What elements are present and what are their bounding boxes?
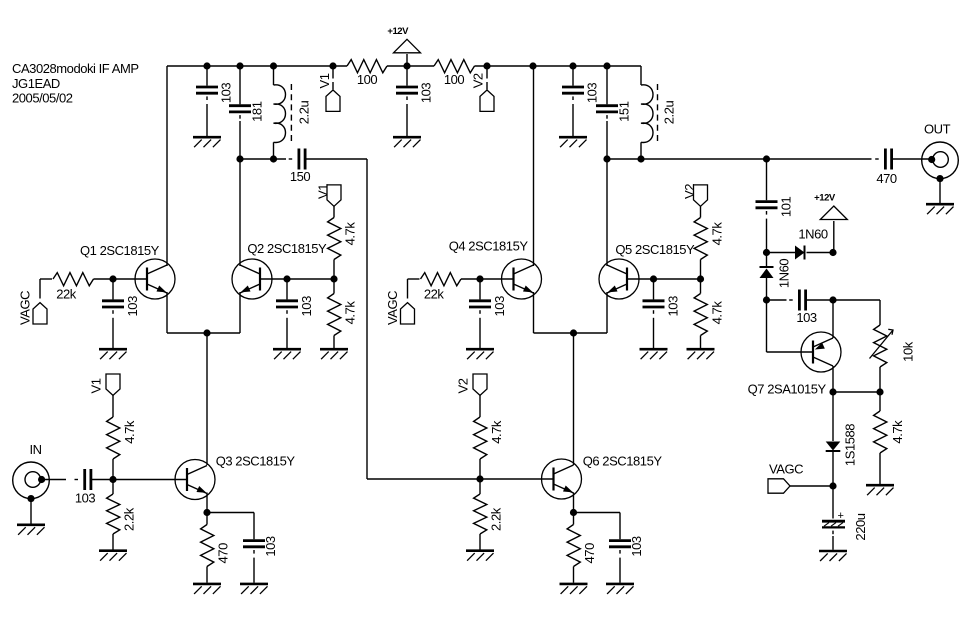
wire C13 top lead — [253, 513, 255, 540]
svg-text:Q2 2SC1815Y: Q2 2SC1815Y — [247, 241, 327, 256]
wire C10 top lead — [112, 279, 114, 299]
wire C20 to ground — [832, 536, 834, 550]
svg-text:4.7k: 4.7k — [709, 301, 724, 325]
wire Q5 emitter lead — [606, 292, 608, 333]
wire Q7 emitter net right — [833, 299, 880, 301]
wire +12V to rail — [406, 54, 408, 66]
node rail dot at C8 — [603, 62, 610, 69]
svg-text:470: 470 — [216, 543, 231, 564]
svg-text:V1: V1 — [88, 378, 103, 393]
wire Q7 base lead — [767, 351, 814, 353]
capacitor C1 103 rail bypass — [396, 83, 434, 104]
ground of C20 — [819, 551, 847, 561]
terminal VAGC tag 2 — [385, 291, 414, 325]
svg-text:IN: IN — [30, 442, 42, 457]
wire C1 top lead — [406, 66, 408, 86]
wire Q1 collector lead — [166, 66, 168, 266]
power +12V supply symbol 2 — [814, 193, 847, 220]
wire VAGC2 lead — [407, 291, 409, 299]
terminal V2 tag mid — [682, 184, 708, 207]
node D2 anode — [763, 296, 770, 303]
node VAGC out — [829, 482, 836, 489]
node rail dot +12V — [403, 62, 410, 69]
capacitor C14 103 Q4 base — [469, 296, 507, 317]
wire D2 cathode lead — [766, 253, 768, 267]
wire R12 to node — [479, 459, 481, 479]
diode D3 1S1588 — [826, 442, 841, 452]
wire C17 top lead — [619, 513, 621, 540]
capacitor C20 220u electrolytic — [822, 510, 868, 541]
wire Q2 base lead — [260, 278, 287, 280]
capacitor C19 103 detector — [789, 290, 817, 326]
wire Q4 base lead — [480, 278, 514, 280]
ground of C14 — [466, 349, 494, 359]
svg-text:4.7k: 4.7k — [489, 420, 504, 444]
svg-text:150: 150 — [290, 169, 311, 184]
wire coupling vertical — [366, 159, 368, 479]
svg-text:103: 103 — [263, 536, 278, 557]
wire Q7 collector lead — [832, 366, 834, 392]
ground of R13 — [466, 551, 494, 561]
svg-text:103: 103 — [585, 83, 600, 104]
wire to output cap — [767, 158, 872, 160]
wire Q3 emitter to C13 — [207, 512, 254, 514]
wire node to R7 — [112, 480, 114, 495]
svg-text:4.7k: 4.7k — [342, 222, 357, 246]
wire C11 to ground — [286, 318, 288, 348]
wire Q6 emitter lead — [573, 493, 575, 513]
title text block — [12, 61, 139, 106]
wire top rail segment 1 — [167, 65, 347, 67]
svg-text:2.2u: 2.2u — [296, 101, 311, 125]
node Q2 divider tap — [330, 275, 337, 282]
wire C5 to ground — [206, 104, 208, 136]
wire C18 top lead — [766, 159, 768, 200]
resistor R11 4.7k lower — [694, 294, 724, 336]
wire Q2 collector lead — [239, 159, 241, 266]
wire top rail segment 2 — [387, 65, 434, 67]
capacitor C17 103 Q6 bypass — [609, 536, 644, 557]
node Q4 base — [476, 275, 483, 282]
resistor R7 2.2k divider — [107, 494, 137, 534]
terminal V2 tag divider — [455, 374, 487, 395]
wire C6 bottom lead — [239, 121, 241, 159]
wire C14 to ground — [479, 318, 481, 348]
wire tap to R5 — [333, 279, 335, 294]
wire OUT bnc to ground — [939, 179, 941, 203]
wire V1 mid lead — [333, 206, 335, 217]
svg-text:4.7k: 4.7k — [342, 301, 357, 325]
wire IFT2 bottom link — [607, 158, 641, 160]
wire Q5 base lead — [627, 278, 654, 280]
wire C7 to ground — [572, 104, 574, 136]
ground of R15 — [866, 485, 894, 495]
svg-text:Q6 2SC1815Y: Q6 2SC1815Y — [583, 454, 663, 469]
svg-text:151: 151 — [617, 101, 632, 122]
ground of C15 — [640, 349, 668, 359]
capacitor C8 151 — [596, 101, 632, 122]
node Q7 collector — [829, 388, 836, 395]
wire L1 top lead — [273, 66, 275, 85]
wire node down to Q7 base net — [766, 300, 768, 352]
wire C7 top lead — [572, 66, 574, 86]
node rail dot at L1 — [270, 62, 277, 69]
wire Q1 emitter lead — [166, 292, 168, 333]
wire C15 to ground — [653, 318, 655, 348]
wire R15 to ground — [879, 453, 881, 484]
wire R7 to ground — [112, 534, 114, 550]
wire C8 top lead — [606, 66, 608, 104]
svg-text:220u: 220u — [853, 513, 868, 540]
wire VR top lead — [879, 300, 881, 325]
transistor Q7 2SA1015Y — [748, 332, 841, 397]
transistor Q2 2SC1815Y — [232, 241, 327, 299]
diode D2 1N60 — [760, 267, 774, 278]
node stage1 emitter join — [203, 329, 210, 336]
inductor L2 primary 2.2u — [641, 84, 676, 143]
wire V1 tag lead 2 — [332, 82, 334, 90]
wire Q5 collector lead — [606, 159, 608, 266]
wire R3 to Q1 base node — [94, 278, 114, 280]
resistor R14 470 — [567, 525, 597, 567]
ground of C1 — [393, 137, 421, 147]
wire R6 to node — [112, 459, 114, 480]
svg-text:V1: V1 — [316, 184, 331, 199]
resistor R4 4.7k upper — [328, 218, 358, 260]
wire R4 to tap — [333, 260, 335, 280]
resistor VR1 10k variable — [874, 325, 916, 367]
svg-text:100: 100 — [444, 72, 465, 87]
wire C15 top lead — [653, 279, 655, 299]
resistor R15 4.7k AGC — [874, 411, 905, 453]
svg-text:470: 470 — [582, 543, 597, 564]
wire VAGC1 lead — [39, 291, 41, 299]
wire Q2 base to divider — [287, 278, 334, 280]
wire +12V2 to node — [833, 221, 835, 253]
wire R10 to tap — [700, 260, 702, 280]
svg-text:100: 100 — [357, 72, 378, 87]
wire V1 tag lead — [332, 66, 334, 79]
terminal V1 tag divider — [88, 374, 120, 395]
node Q5 base — [650, 275, 657, 282]
node IFT1 bottom at L1 — [270, 155, 277, 162]
node Q1 base — [109, 275, 116, 282]
svg-text:2005/05/02: 2005/05/02 — [12, 91, 73, 106]
transistor Q6 2SC1815Y — [542, 454, 663, 500]
svg-text:22k: 22k — [424, 287, 445, 302]
terminal VAGC tag 3 — [768, 462, 803, 494]
svg-text:+: + — [838, 510, 844, 522]
wire V2 mid lead — [700, 206, 702, 217]
svg-text:4.7k: 4.7k — [890, 420, 905, 444]
wire C16 to OUT — [892, 158, 929, 160]
connector J2 OUT — [922, 122, 959, 183]
wire C8 bottom lead — [606, 121, 608, 159]
svg-text:+12V: +12V — [387, 26, 409, 37]
wire C17 to ground — [619, 558, 621, 583]
ground of C17 — [606, 584, 634, 594]
node IFT2 bottom at C8 — [603, 155, 610, 162]
node rail dot Q4 collector — [529, 62, 536, 69]
wire VAGC3 lead — [790, 485, 833, 487]
ground of C11 — [273, 349, 301, 359]
node detector tap — [763, 155, 770, 162]
resistor R2 100 — [434, 60, 475, 87]
svg-text:10k: 10k — [901, 341, 916, 362]
wire Q6 emitter to C17 — [574, 512, 621, 514]
node Q7 emitter net — [829, 296, 836, 303]
wire L2 bottom lead — [640, 142, 642, 159]
capacitor C12 103 input — [75, 469, 96, 506]
svg-text:VAGC: VAGC — [18, 291, 33, 325]
capacitor C6 181 — [229, 101, 265, 122]
svg-text:Q1 2SC1815Y: Q1 2SC1815Y — [80, 243, 160, 258]
ground of C10 — [99, 349, 127, 359]
svg-text:V2: V2 — [682, 184, 697, 199]
svg-text:CA3028modoki IF AMP: CA3028modoki IF AMP — [12, 61, 139, 76]
wire V2 tag lead 2 — [486, 82, 488, 90]
svg-text:1S1588: 1S1588 — [843, 424, 858, 466]
svg-text:101: 101 — [778, 197, 793, 218]
ground of C5 — [193, 137, 221, 147]
svg-text:103: 103 — [796, 310, 817, 325]
wire VAGC1 vertical — [39, 279, 41, 291]
wire D2 anode lead — [766, 278, 768, 300]
inductor L1 primary 2.2u — [274, 84, 312, 143]
wire R14 to ground — [573, 567, 575, 583]
node Q7 collector net right — [876, 388, 883, 395]
resistor R5 4.7k lower — [328, 294, 358, 336]
wire L1 bottom lead — [273, 142, 275, 159]
svg-text:1N60: 1N60 — [777, 259, 792, 288]
svg-text:2.2u: 2.2u — [661, 101, 676, 125]
wire Q3 base lead — [113, 479, 187, 481]
wire R11 to ground — [700, 336, 702, 349]
svg-text:V2: V2 — [455, 378, 470, 393]
wire C10 to ground — [112, 318, 114, 348]
wire Q2 emitter lead — [239, 292, 241, 333]
wire C20 top lead — [832, 486, 834, 519]
resistor R1 100 — [347, 60, 387, 87]
ground of R11 — [687, 349, 715, 359]
ground of C13 — [240, 584, 268, 594]
node rail dot at C6 — [236, 62, 243, 69]
wire C12 to Q3 base node — [91, 479, 113, 481]
node D1 anode — [763, 249, 770, 256]
svg-text:103: 103 — [492, 296, 507, 317]
wire R15 top lead — [879, 392, 881, 411]
wire VAGC2 horizontal — [408, 278, 420, 280]
resistor R6 4.7k divider — [107, 417, 137, 459]
wire Q3 emitter to R8 — [206, 513, 208, 525]
resistor R3 22k — [53, 273, 94, 302]
node IFT1 bottom at C6 — [236, 155, 243, 162]
wire V1 div lead — [112, 395, 114, 417]
svg-text:Q4 2SC1815Y: Q4 2SC1815Y — [449, 239, 529, 254]
wire C14 top lead — [479, 279, 481, 299]
svg-text:V1: V1 — [317, 73, 332, 88]
svg-text:4.7k: 4.7k — [122, 420, 137, 444]
terminal V1 tag mid — [316, 184, 342, 207]
capacitor C13 103 Q3 bypass — [243, 536, 278, 557]
resistor R9 22k — [421, 273, 462, 302]
wire R13 to ground — [479, 534, 481, 550]
node rail dot V2 — [483, 62, 490, 69]
transistor Q1 2SC1815Y — [80, 243, 175, 299]
svg-text:VAGC: VAGC — [385, 291, 400, 325]
wire Q6 base lead — [480, 478, 554, 480]
capacitor C10 103 Q1 base — [102, 296, 140, 317]
wire D1 cathode lead — [807, 252, 834, 254]
wire Q3 emitter lead — [206, 493, 208, 513]
wire R9 to Q4 base node — [461, 278, 480, 280]
wire C11 top lead — [286, 279, 288, 299]
svg-text:103: 103 — [125, 296, 140, 317]
connector J1 IN — [13, 442, 50, 502]
svg-text:103: 103 — [299, 296, 314, 317]
node Q2 base — [283, 275, 290, 282]
capacitor C16 470 output — [875, 149, 897, 187]
wire Q7 collector to VR — [833, 391, 880, 393]
terminal VAGC tag 1 — [18, 291, 47, 325]
wire Q1 base lead — [113, 278, 147, 280]
wire tap to R11 — [700, 279, 702, 294]
terminal V2 top tag — [470, 73, 494, 111]
node Q5 divider tap — [697, 275, 704, 282]
terminal V1 top tag — [317, 73, 340, 111]
wire IN to C12 — [41, 479, 67, 481]
wire Q7 emitter lead — [832, 300, 834, 338]
wire V2 div lead — [479, 395, 481, 417]
wire Q4 emitter to join — [534, 332, 574, 334]
svg-text:+12V: +12V — [814, 193, 836, 204]
wire R5 to ground — [333, 336, 335, 349]
ground of R14 — [560, 584, 588, 594]
svg-text:Q7 2SA1015Y: Q7 2SA1015Y — [748, 382, 827, 397]
svg-text:22k: 22k — [56, 287, 77, 302]
wire node to R13 — [479, 479, 481, 494]
arrow of VR1 — [870, 329, 894, 358]
resistor R8 470 — [201, 525, 231, 567]
capacitor C18 101 — [756, 197, 794, 218]
wire Q4 collector lead — [533, 66, 535, 266]
wire IFT2 to detector — [641, 158, 767, 160]
wire D3 anode lead — [832, 392, 834, 441]
wire Q1 emitter to join — [167, 332, 207, 334]
wire L2 top lead — [640, 66, 642, 85]
transistor Q3 2SC1815Y — [175, 454, 295, 500]
wire VR bottom lead — [879, 367, 881, 392]
wire Q6 emitter to R14 — [573, 513, 575, 525]
transistor Q5 2SC1815Y — [599, 242, 695, 299]
svg-text:VAGC: VAGC — [769, 462, 803, 477]
wire join to Q3 collector — [206, 333, 208, 465]
wire C6 top lead — [239, 66, 241, 104]
node rail dot at C5 — [203, 62, 210, 69]
node IFT2 bottom at L2 — [637, 155, 644, 162]
resistor R12 4.7k divider — [474, 417, 504, 459]
svg-text:103: 103 — [219, 83, 234, 104]
diode D1 1N60 — [795, 246, 805, 260]
node rail dot at C7 — [569, 62, 576, 69]
resistor R13 2.2k divider — [474, 494, 504, 534]
wire IFT1 bottom link — [240, 158, 286, 160]
svg-text:JG1EAD: JG1EAD — [12, 76, 60, 91]
wire Q5 base to divider — [654, 278, 701, 280]
svg-text:103: 103 — [75, 491, 96, 506]
label D2 1N60 — [777, 259, 792, 288]
svg-text:4.7k: 4.7k — [709, 222, 724, 246]
wire after C9 — [305, 158, 367, 160]
svg-text:2.2k: 2.2k — [489, 507, 504, 531]
node Q6 emitter — [570, 509, 577, 516]
label D1 1N60 — [798, 227, 827, 242]
svg-text:Q5 2SC1815Y: Q5 2SC1815Y — [615, 242, 695, 257]
transistor Q4 2SC1815Y — [449, 239, 542, 300]
capacitor C5 103 — [196, 83, 234, 104]
node Q3 emitter — [203, 509, 210, 516]
node D1 cathode +12V — [829, 249, 836, 256]
wire VAGC2 vertical — [407, 279, 409, 291]
wire D1 anode lead — [767, 252, 796, 254]
wire IN bnc to ground — [30, 499, 32, 524]
ground of R5 — [320, 349, 348, 359]
node rail dot V1 — [329, 62, 336, 69]
wire C5 top lead — [206, 66, 208, 86]
svg-text:103: 103 — [629, 536, 644, 557]
capacitor C9 150 coupling — [289, 149, 311, 185]
wire VAGC1 horizontal — [40, 278, 52, 280]
capacitor C11 103 Q2 base — [276, 296, 314, 317]
svg-text:OUT: OUT — [924, 122, 951, 137]
wire D3 cathode lead — [832, 451, 834, 486]
resistor R10 4.7k upper — [694, 218, 724, 260]
svg-text:103: 103 — [419, 83, 434, 104]
ground of C7 — [559, 137, 587, 147]
wire C1 to ground — [406, 104, 408, 136]
label D3 1S1588 — [843, 424, 858, 466]
ground of J1 — [17, 525, 45, 535]
capacitor C15 103 Q5 base — [643, 296, 681, 317]
node Q6 base divider — [476, 475, 483, 482]
capacitor C7 103 — [562, 83, 600, 104]
wire C19 to +12V node — [806, 299, 833, 301]
ground of R8 — [193, 584, 221, 594]
wire coupling horizontal to Q6 base node — [367, 478, 480, 480]
wire V2 tag lead — [486, 66, 488, 79]
svg-text:1N60: 1N60 — [798, 227, 827, 242]
svg-text:470: 470 — [876, 171, 897, 186]
svg-text:2.2k: 2.2k — [122, 507, 137, 531]
power +12V supply symbol — [387, 26, 420, 53]
wire R8 to ground — [206, 567, 208, 583]
wire join2 to Q6 collector — [573, 333, 575, 465]
wire top rail segment 3 — [475, 65, 642, 67]
wire Q5 emitter to join — [574, 332, 608, 334]
svg-text:103: 103 — [666, 296, 681, 317]
ground of J2 — [926, 204, 954, 214]
wire Q4 emitter lead — [533, 292, 535, 333]
svg-text:181: 181 — [250, 101, 265, 122]
ground of R7 — [99, 551, 127, 561]
wire C18 to D1 node — [766, 219, 768, 253]
node Q3 base — [109, 476, 116, 483]
wire C13 to ground — [253, 558, 255, 583]
svg-text:V2: V2 — [470, 73, 485, 88]
svg-text:Q3 2SC1815Y: Q3 2SC1815Y — [216, 454, 296, 469]
node stage2 emitter join — [570, 329, 577, 336]
wire D2 node to C19 — [767, 299, 787, 301]
